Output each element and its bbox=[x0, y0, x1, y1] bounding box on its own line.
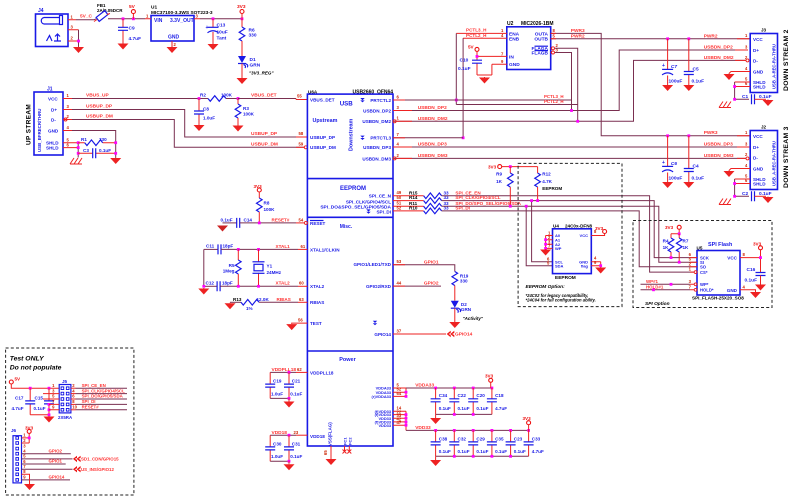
wire J1 GND bbox=[72, 131, 116, 158]
svg-text:5V_C: 5V_C bbox=[80, 14, 93, 20]
svg-text:USBDN_DM3: USBDN_DM3 bbox=[362, 156, 391, 161]
svg-text:GND: GND bbox=[727, 288, 738, 293]
capacitor C9 bbox=[118, 19, 141, 43]
svg-text:RBIAS: RBIAS bbox=[277, 297, 291, 302]
chip bottom VSS(FLAG) pin 65 bbox=[323, 422, 333, 459]
ground J3 bbox=[724, 74, 735, 81]
wire VDDA33 rail bbox=[406, 387, 492, 389]
svg-text:23: 23 bbox=[294, 430, 299, 435]
svg-text:PRTCTL3: PRTCTL3 bbox=[370, 136, 391, 141]
svg-text:VDD33: VDD33 bbox=[378, 423, 391, 428]
svg-text:SHLD: SHLD bbox=[46, 146, 59, 151]
svg-text:PCTL3_H: PCTL3_H bbox=[466, 28, 487, 33]
resistor R3 100K bbox=[235, 97, 254, 125]
svg-text:USBDN_DM3: USBDN_DM3 bbox=[418, 153, 448, 159]
capacitor C29 bbox=[468, 430, 488, 456]
capacitor C21 bbox=[284, 372, 302, 398]
svg-text:0.1uF: 0.1uF bbox=[692, 79, 705, 85]
svg-text:50: 50 bbox=[397, 195, 402, 200]
svg-text:GPIO1/LED1/TXD: GPIO1/LED1/TXD bbox=[353, 262, 391, 267]
EEPROM option dashed box bbox=[518, 163, 622, 306]
resistor R11 bbox=[393, 201, 449, 209]
svg-text:VDD18: VDD18 bbox=[310, 434, 325, 439]
wire J2 GND bbox=[729, 169, 750, 171]
SPI option dashed box bbox=[633, 221, 772, 308]
svg-text:OUTB: OUTB bbox=[534, 37, 548, 43]
resistor R9 1K bbox=[496, 167, 513, 208]
svg-text:GPIO2/RXD: GPIO2/RXD bbox=[366, 284, 392, 289]
svg-text:52: 52 bbox=[397, 205, 402, 210]
ground J1 gnd bbox=[110, 158, 121, 165]
resistor R4 1K bbox=[663, 234, 674, 259]
svg-text:4.7K: 4.7K bbox=[542, 179, 552, 184]
svg-text:GND: GND bbox=[168, 35, 180, 41]
svg-text:C14: C14 bbox=[244, 217, 253, 222]
svg-text:RESET#: RESET# bbox=[272, 217, 290, 222]
wire US_INS/GPIO12 bbox=[22, 468, 73, 470]
svg-text:ENB: ENB bbox=[509, 37, 520, 43]
svg-text:10uF: 10uF bbox=[217, 30, 228, 36]
svg-text:WP*: WP* bbox=[700, 282, 709, 287]
ground C14 bbox=[217, 226, 228, 232]
svg-text:3V3: 3V3 bbox=[488, 164, 497, 169]
svg-text:VCC: VCC bbox=[753, 37, 763, 42]
svg-text:SPI_CE_N: SPI_CE_N bbox=[369, 193, 392, 198]
svg-text:MIC2026-1BM: MIC2026-1BM bbox=[521, 21, 554, 27]
wire J5 SPI_CLK bbox=[76, 393, 128, 395]
ground below C6 bbox=[662, 182, 673, 189]
svg-text:100K: 100K bbox=[264, 207, 276, 212]
svg-text:GPIO1: GPIO1 bbox=[49, 459, 63, 464]
svg-text:VCC: VCC bbox=[753, 134, 763, 139]
node 3V3 J6 bbox=[22, 426, 34, 443]
svg-text:C3: C3 bbox=[83, 148, 89, 153]
wire SD1_CDN/GPIO15 bbox=[22, 458, 73, 460]
svg-text:C21: C21 bbox=[292, 379, 301, 384]
wire VDD18 gnd rail bbox=[270, 460, 289, 462]
wire GPIO14 off-page bbox=[393, 333, 446, 335]
wire SDA down to U4 bbox=[526, 206, 552, 266]
svg-text:C16: C16 bbox=[747, 267, 756, 273]
svg-text:SPI Flash: SPI Flash bbox=[708, 242, 732, 248]
capacitor C20 bbox=[468, 388, 488, 414]
wire VDD33 rail bbox=[406, 429, 529, 431]
wire PWR2 from OUTB bbox=[551, 38, 751, 40]
capacitor C19 bbox=[265, 372, 283, 398]
svg-text:61: 61 bbox=[301, 244, 306, 249]
svg-text:24C0x-DFN8: 24C0x-DFN8 bbox=[565, 223, 593, 228]
svg-text:USBDN_DM2: USBDN_DM2 bbox=[704, 55, 734, 61]
svg-text:J2: J2 bbox=[761, 125, 767, 130]
ground VDDPLL18 bbox=[284, 401, 295, 408]
capacitor C13 tantalum bbox=[206, 17, 228, 43]
svg-text:18pF: 18pF bbox=[222, 281, 233, 286]
svg-text:U1: U1 bbox=[151, 5, 157, 11]
svg-text:U2: U2 bbox=[507, 21, 514, 27]
svg-text:R8: R8 bbox=[264, 201, 270, 206]
chip right pin labels bbox=[320, 98, 391, 428]
ground VDD18 bbox=[284, 464, 295, 471]
ground below C13 bbox=[208, 44, 219, 51]
svg-text:C29: C29 bbox=[476, 436, 485, 441]
svg-text:RESET: RESET bbox=[310, 221, 326, 226]
LED D1 GRN bbox=[238, 56, 274, 78]
svg-text:USBDN_DM3: USBDN_DM3 bbox=[704, 153, 734, 159]
svg-text:R12: R12 bbox=[542, 172, 551, 177]
node 3V3 pullups bbox=[488, 164, 538, 169]
wire PRTCTL2 net bbox=[393, 99, 572, 101]
wire SCL down to U4 bbox=[532, 201, 553, 262]
svg-text:PRTCTL2: PRTCTL2 bbox=[370, 98, 391, 103]
svg-text:VIN: VIN bbox=[154, 18, 163, 24]
svg-text:USB_BFRECR/THRU: USB_BFRECR/THRU bbox=[37, 109, 42, 152]
svg-text:1Meg: 1Meg bbox=[223, 269, 235, 274]
ground below C16 bbox=[755, 284, 766, 291]
ground J2 bbox=[724, 171, 735, 178]
capacitor C10 bbox=[458, 44, 507, 75]
svg-text:1.0uF: 1.0uF bbox=[271, 454, 283, 459]
svg-text:VSS(FLAG): VSS(FLAG) bbox=[328, 422, 333, 446]
wire USBDN_DP2 bbox=[393, 50, 748, 111]
svg-text:C1: C1 bbox=[742, 94, 748, 100]
ground below D1 bbox=[237, 78, 248, 85]
svg-text:24MHz: 24MHz bbox=[267, 270, 282, 275]
ground right of C1 bbox=[763, 100, 774, 107]
svg-text:C17: C17 bbox=[15, 396, 24, 401]
connector J2 downstream 3 bbox=[745, 125, 790, 190]
wire U4 VCC to 3V3 bbox=[591, 226, 606, 236]
svg-text:RBIAS: RBIAS bbox=[310, 300, 324, 305]
resistor R8 100K bbox=[257, 192, 276, 223]
connector J6 header bbox=[11, 428, 26, 483]
svg-text:0.1uF: 0.1uF bbox=[221, 217, 233, 222]
svg-text:VDDA33: VDDA33 bbox=[415, 383, 434, 389]
svg-text:+: + bbox=[662, 63, 665, 69]
node ENA riser bbox=[455, 33, 457, 104]
svg-text:55: 55 bbox=[297, 94, 302, 99]
svg-text:FC2: FC2 bbox=[348, 437, 353, 445]
svg-text:59: 59 bbox=[299, 142, 304, 147]
svg-text:PWR2: PWR2 bbox=[571, 33, 585, 39]
svg-text:USBDN_DM2: USBDN_DM2 bbox=[362, 119, 391, 124]
svg-text:C33: C33 bbox=[532, 436, 541, 441]
wire VDDPLL18 bbox=[270, 371, 296, 373]
LED D2 GRN activity bbox=[451, 301, 484, 322]
wire U4 address pins to ground bbox=[546, 236, 553, 250]
svg-text:R13: R13 bbox=[233, 297, 242, 302]
svg-text:USBUP_DM: USBUP_DM bbox=[86, 114, 113, 120]
test-only dashed box bbox=[6, 348, 134, 495]
ground J6 bbox=[24, 484, 35, 491]
resistor R2 100K bbox=[198, 92, 238, 101]
svg-text:GPIO14: GPIO14 bbox=[374, 332, 391, 337]
svg-text:VCC: VCC bbox=[580, 233, 589, 238]
svg-text:ENA: ENA bbox=[509, 31, 520, 37]
svg-text:SPI_CLK/GPIO4/SCL: SPI_CLK/GPIO4/SCL bbox=[455, 195, 500, 200]
svg-text:EEPROM: EEPROM bbox=[555, 275, 576, 281]
svg-text:37: 37 bbox=[397, 328, 402, 333]
svg-text:WP#1: WP#1 bbox=[646, 279, 659, 284]
svg-text:IN: IN bbox=[509, 54, 514, 60]
svg-text:1.0uF: 1.0uF bbox=[203, 116, 215, 121]
svg-text:C32: C32 bbox=[458, 436, 467, 441]
wire TEST pin to ground bbox=[292, 322, 308, 325]
svg-text:PCTL2_H: PCTL2_H bbox=[466, 33, 487, 38]
svg-text:0.1uF: 0.1uF bbox=[759, 94, 772, 100]
svg-text:DOWN STREAM 2: DOWN STREAM 2 bbox=[783, 29, 790, 91]
resistor R19 330 bbox=[452, 272, 469, 301]
svg-text:GPIO1: GPIO1 bbox=[424, 259, 439, 265]
capacitor C4 0.1uF bbox=[684, 134, 704, 181]
svg-text:EEPROM Option:: EEPROM Option: bbox=[526, 284, 566, 290]
5V terminal bbox=[129, 4, 136, 20]
wire VDD18 bbox=[270, 434, 296, 436]
svg-text:0.1uF: 0.1uF bbox=[476, 449, 488, 454]
svg-text:TEST: TEST bbox=[310, 321, 322, 326]
resistor R7 1K bbox=[676, 234, 689, 264]
wire J5 SPI_CE_EN bbox=[76, 387, 128, 389]
svg-text:R1: R1 bbox=[81, 137, 87, 142]
svg-text:C13: C13 bbox=[217, 23, 226, 29]
capacitor C2 bbox=[742, 191, 772, 201]
svg-text:R9: R9 bbox=[496, 172, 502, 177]
svg-text:0.1uF: 0.1uF bbox=[514, 449, 526, 454]
wire FLAGB loop bbox=[555, 53, 572, 111]
ground U4 bbox=[595, 267, 606, 274]
wire USBDN_DM3 bbox=[393, 157, 746, 159]
svg-text:GPIO2: GPIO2 bbox=[424, 281, 439, 287]
svg-text:Do not populate: Do not populate bbox=[10, 365, 62, 372]
connector J4 power jack bbox=[36, 8, 80, 47]
svg-text:10: 10 bbox=[72, 405, 77, 410]
svg-text:R7: R7 bbox=[683, 238, 689, 243]
wire J5 SPI_DO bbox=[76, 398, 128, 400]
svg-text:VBUS_DET: VBUS_DET bbox=[310, 97, 335, 102]
svg-text:58: 58 bbox=[299, 131, 304, 136]
wire USBUP_DP bbox=[72, 110, 307, 138]
svg-text:USBUP_DP: USBUP_DP bbox=[251, 131, 278, 137]
wire USBDN_DM2 bbox=[393, 60, 746, 121]
svg-text:HOLD#1: HOLD#1 bbox=[646, 285, 664, 290]
ground VDD33 bbox=[435, 456, 437, 459]
svg-text:C22: C22 bbox=[458, 393, 467, 398]
svg-text:0.1uF: 0.1uF bbox=[476, 406, 488, 411]
ground test caps bbox=[44, 416, 55, 423]
svg-text:XTAL1/CLKIN: XTAL1/CLKIN bbox=[310, 247, 340, 252]
svg-text:330: 330 bbox=[249, 33, 257, 39]
svg-text:2X5RA: 2X5RA bbox=[58, 415, 73, 420]
svg-text:56: 56 bbox=[298, 318, 303, 323]
wire J2 shield bus bbox=[735, 179, 751, 184]
chip left pin labels bbox=[310, 97, 340, 439]
ground below C5 bbox=[683, 85, 694, 92]
capacitor C30 bbox=[265, 435, 283, 461]
wire GPIO1 J6 bbox=[22, 463, 66, 465]
svg-text:GPIO14: GPIO14 bbox=[455, 332, 473, 338]
wire J5 SPI_DI bbox=[76, 403, 128, 405]
svg-text:SPI Option: SPI Option bbox=[645, 301, 670, 307]
svg-text:PCTL2_H: PCTL2_H bbox=[544, 99, 564, 104]
wire SPI_DO bbox=[442, 206, 697, 262]
wire PCTL3_H to ENA bbox=[456, 32, 507, 34]
wire to U1 bbox=[108, 18, 145, 20]
crystal Y1 24MHz bbox=[253, 249, 282, 286]
svg-text:4.7uF: 4.7uF bbox=[129, 36, 142, 42]
svg-text:C5: C5 bbox=[693, 67, 699, 73]
wire VDDA33 pins bar bbox=[393, 383, 407, 398]
svg-text:VBUS_DET: VBUS_DET bbox=[251, 93, 277, 99]
svg-text:GND: GND bbox=[753, 167, 764, 172]
resistor R12 4.7K bbox=[535, 167, 563, 202]
ground U4 address bbox=[540, 249, 551, 256]
op-amp U6A USB2660_QFN64 hub chip bbox=[307, 90, 393, 447]
ground below D2 bbox=[449, 322, 460, 329]
svg-text:C7: C7 bbox=[671, 64, 677, 70]
capacitor C15 bbox=[30, 388, 54, 416]
svg-text:+: + bbox=[206, 25, 209, 31]
svg-text:0.1uF: 0.1uF bbox=[759, 191, 772, 197]
resistor R6 bbox=[239, 19, 257, 56]
svg-text:53: 53 bbox=[397, 259, 402, 264]
svg-text:0.1uF: 0.1uF bbox=[290, 454, 302, 459]
ground below C11/C12 bbox=[198, 288, 209, 295]
svg-text:PWR2: PWR2 bbox=[704, 33, 718, 39]
svg-text:C30: C30 bbox=[273, 441, 282, 446]
svg-text:EEPROM: EEPROM bbox=[340, 186, 366, 192]
svg-text:GND: GND bbox=[48, 128, 59, 133]
svg-text:C15: C15 bbox=[35, 396, 44, 401]
svg-text:62: 62 bbox=[297, 367, 302, 372]
svg-text:Misc.: Misc. bbox=[340, 224, 353, 230]
svg-text:J4: J4 bbox=[38, 8, 44, 14]
ground below J4 bbox=[73, 47, 84, 54]
chassis ground J1 bbox=[70, 158, 82, 164]
node 3V3 reset pullup bbox=[254, 184, 263, 192]
node 3V3 VDD33 bbox=[523, 416, 532, 430]
svg-text:US_INS/GPIO12: US_INS/GPIO12 bbox=[81, 467, 115, 472]
svg-text:USB: USB bbox=[340, 101, 354, 108]
svg-text:VDD18: VDD18 bbox=[272, 430, 288, 436]
svg-text:100uF: 100uF bbox=[669, 176, 683, 182]
svg-text:Y1: Y1 bbox=[267, 263, 273, 268]
EEPROM U4 24C0x-DFN8 bbox=[547, 223, 593, 280]
svg-text:VBUS_UP: VBUS_UP bbox=[86, 93, 109, 99]
node ENB riser bbox=[462, 38, 464, 138]
wire VDDPLL18 gnd rail bbox=[270, 397, 289, 399]
svg-text:Test ONLY: Test ONLY bbox=[10, 356, 45, 363]
svg-text:USBUP_DM: USBUP_DM bbox=[310, 145, 336, 150]
svg-text:SPI_CLK/GPIO4/SCL: SPI_CLK/GPIO4/SCL bbox=[82, 388, 126, 393]
svg-text:PWR3: PWR3 bbox=[571, 28, 585, 34]
shield bus bbox=[77, 143, 79, 158]
svg-text:330: 330 bbox=[460, 278, 468, 283]
capacitor C7 100uF bbox=[662, 37, 682, 84]
pin glyphs PRTCTL2 PRTCTL3 SPI_DI TEST bbox=[360, 98, 364, 102]
svg-text:SD1_CDN/GPIO15: SD1_CDN/GPIO15 bbox=[81, 457, 119, 462]
svg-text:+: + bbox=[662, 160, 665, 166]
svg-text:USBUP_DP: USBUP_DP bbox=[310, 135, 335, 140]
svg-text:C6: C6 bbox=[671, 161, 677, 167]
svg-text:1.0uF: 1.0uF bbox=[271, 391, 283, 396]
wire GPIO14 J6 bbox=[22, 479, 71, 481]
svg-text:3.3V_OUT: 3.3V_OUT bbox=[170, 18, 194, 24]
svg-text:D+: D+ bbox=[753, 145, 759, 150]
wire VDD33 bottom rail bbox=[436, 455, 529, 457]
svg-text:Upstream: Upstream bbox=[313, 118, 338, 124]
svg-text:"Activity": "Activity" bbox=[463, 316, 484, 321]
chassis ground J2 shield bbox=[719, 199, 731, 205]
capacitor C8 bbox=[194, 99, 215, 125]
svg-text:XTAL2: XTAL2 bbox=[276, 281, 291, 286]
wire U4 GND/flag bbox=[591, 262, 600, 267]
wire SPI_CLK bbox=[442, 201, 697, 258]
connector J1 upstream USB bbox=[26, 87, 79, 156]
svg-text:C19: C19 bbox=[273, 379, 282, 384]
svg-text:100K: 100K bbox=[243, 112, 255, 117]
svg-text:R10: R10 bbox=[409, 206, 418, 211]
resistor R15 bbox=[393, 190, 449, 198]
svg-text:U4: U4 bbox=[553, 223, 559, 228]
svg-text:C18: C18 bbox=[495, 393, 504, 398]
svg-text:USBDN_DP2: USBDN_DP2 bbox=[418, 105, 447, 111]
wire J6 ground bbox=[22, 474, 30, 483]
svg-text:SPI_DO/GPIO5/SDA: SPI_DO/GPIO5/SDA bbox=[82, 394, 124, 399]
svg-text:SO: SO bbox=[700, 265, 707, 270]
svg-text:Downstream: Downstream bbox=[349, 118, 355, 151]
svg-text:D+: D+ bbox=[51, 107, 57, 112]
svg-text:SPI_DI: SPI_DI bbox=[455, 206, 470, 211]
svg-text:WP: WP bbox=[555, 246, 562, 251]
capacitor C1 bbox=[742, 94, 772, 104]
svg-text:64: 64 bbox=[397, 391, 402, 396]
wire 5V_C bbox=[76, 19, 96, 20]
svg-text:J5: J5 bbox=[62, 379, 68, 384]
pins FC1 FC2 no-connect bbox=[343, 437, 353, 454]
wire VBUS_DET bbox=[238, 98, 296, 100]
svg-text:1K: 1K bbox=[663, 245, 670, 250]
svg-text:CS*: CS* bbox=[700, 270, 708, 275]
svg-text:R14: R14 bbox=[409, 195, 418, 200]
svg-text:VDDPLL18: VDDPLL18 bbox=[310, 370, 334, 375]
capacitor C17 bbox=[12, 388, 36, 415]
svg-text:USBUP_DP: USBUP_DP bbox=[86, 104, 113, 110]
svg-text:C4: C4 bbox=[693, 164, 699, 170]
svg-text:EEPROM: EEPROM bbox=[542, 186, 562, 191]
svg-text:J6: J6 bbox=[11, 428, 17, 433]
connector J3 downstream 2 bbox=[745, 28, 790, 93]
svg-text:GRN: GRN bbox=[250, 63, 261, 69]
wire VDDA33 bottom rail bbox=[436, 413, 492, 415]
node 5V test bbox=[9, 377, 59, 390]
node 3V3 VDDA33 bbox=[485, 374, 494, 388]
svg-text:FLAGB: FLAGB bbox=[531, 50, 548, 56]
svg-text:63: 63 bbox=[299, 297, 304, 302]
ground below C9 bbox=[118, 43, 129, 50]
capacitor C5 0.1uF bbox=[684, 37, 704, 84]
capacitor C12 18pF bbox=[202, 281, 307, 292]
ground below R3 bbox=[233, 125, 244, 132]
svg-text:0.1uF: 0.1uF bbox=[34, 406, 46, 411]
svg-text:D-: D- bbox=[753, 155, 758, 160]
svg-text:65: 65 bbox=[323, 450, 328, 455]
svg-text:USBDN_DP3: USBDN_DP3 bbox=[363, 145, 391, 150]
svg-text:SPI_CE_EN: SPI_CE_EN bbox=[82, 383, 106, 388]
svg-text:XTAL1: XTAL1 bbox=[276, 244, 291, 249]
svg-text:C8: C8 bbox=[203, 107, 209, 112]
svg-text:*24C04 for full configuration: *24C04 for full configuration ability. bbox=[526, 298, 596, 303]
capacitor C18 bbox=[487, 388, 507, 414]
svg-text:C34: C34 bbox=[439, 393, 448, 398]
